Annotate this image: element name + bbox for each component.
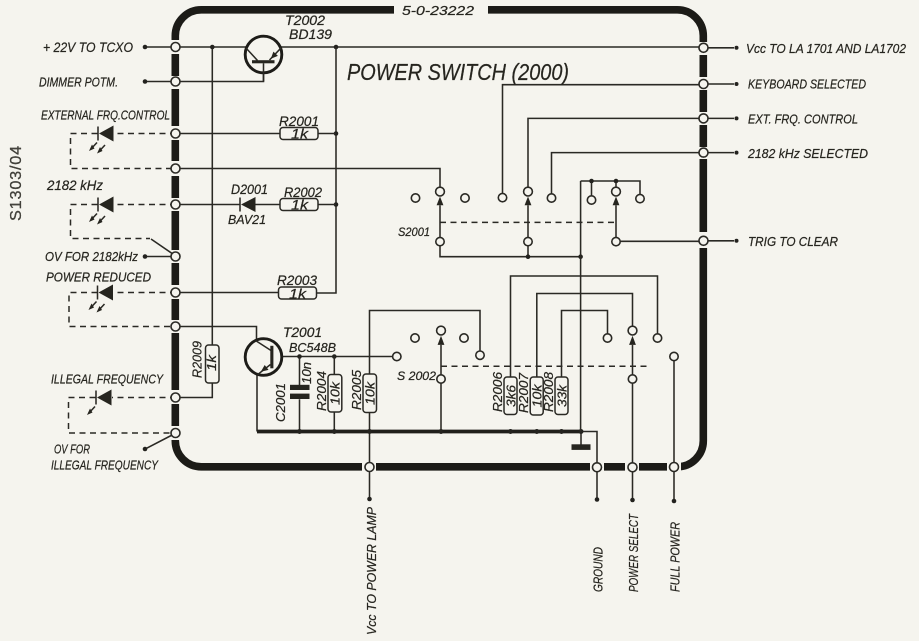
terminal left OV2182 — [171, 252, 180, 261]
switch S2002 contact from T2001 base — [393, 352, 401, 360]
wire R2007 elbow to S2002 wiper — [537, 294, 633, 378]
node junction rail-R2001 — [334, 131, 339, 136]
wire diagonal OV FOR ILLEGAL FREQUENCY — [146, 433, 176, 449]
wire C2001 leads — [299, 357, 301, 432]
svg-text:T2002: T2002 — [285, 13, 326, 28]
wire R2002 right lead — [318, 204, 336, 206]
svg-text:EXT. FRQ. CONTROL: EXT. FRQ. CONTROL — [748, 113, 858, 127]
switch S2002 contact R2008 — [603, 334, 611, 342]
resistor R2007 — [530, 377, 543, 415]
terminal left power-reduced — [171, 288, 180, 297]
terminal right trig — [699, 236, 708, 245]
wire S2002 mechanical dashed coupling — [441, 365, 651, 367]
wire Vcc line from T2002 emitter to right border — [282, 46, 704, 48]
node external dot OV 2182 — [143, 254, 148, 259]
switch S2002 left wiring — [441, 345, 633, 463]
switch S2001 wiper arrow C — [613, 197, 620, 206]
wire R2009 bottom lead to terminal — [176, 383, 212, 398]
wire DIMMER POTM to base of T2002 — [145, 73, 264, 82]
wire R2004 leads — [333, 357, 335, 432]
switch S2002 contact R2005 — [476, 351, 484, 359]
resistor R2009 — [206, 345, 220, 383]
svg-text:10n: 10n — [299, 362, 314, 384]
wire center vertical x=580.6 from y181 to bus — [580, 181, 582, 432]
terminal left +22V — [171, 43, 180, 52]
svg-text:D2001: D2001 — [231, 182, 268, 197]
wire long return line y=168.5 to S2001 wiper — [176, 169, 440, 188]
wire Vcc TO POWER LAMP external stub — [369, 471, 371, 497]
wire ground-symbol stub and step to GROUND terminal — [581, 432, 597, 464]
node right dot trig — [735, 239, 739, 243]
resistor R2003 — [279, 287, 317, 299]
wire right stub Vcc — [708, 47, 734, 49]
switch S2002 wiper contact L — [437, 326, 446, 335]
diode D2001 BAV21 — [240, 197, 256, 212]
svg-text:POWER SWITCH (2000): POWER SWITCH (2000) — [347, 59, 569, 85]
terminal right keyboard — [699, 80, 708, 89]
svg-text:10k: 10k — [328, 380, 343, 405]
svg-text:2182 kHz: 2182 kHz — [46, 178, 103, 193]
terminal left illegal — [171, 393, 180, 402]
node junction rail-R2002 — [334, 202, 339, 207]
switch S2001 wiper arrow A — [437, 197, 444, 206]
wire right stub 2182sel — [708, 152, 734, 154]
switch S2001 bottom contact A — [436, 237, 444, 245]
switch S2001 contact A1 — [411, 194, 419, 202]
transistor T2002 — [245, 36, 282, 81]
node external dot OV illegal — [143, 447, 148, 452]
switch S2001 contact keyboard — [498, 193, 506, 201]
svg-text:S2001: S2001 — [398, 225, 430, 239]
svg-text:1k: 1k — [204, 353, 219, 371]
wire diagonal from 2182 loop to OV terminal — [151, 239, 174, 255]
wire ground bus — [257, 430, 581, 434]
terminal bottom power-select — [628, 463, 637, 472]
node bus junction R2005-lamp — [367, 429, 372, 434]
node junction base-R2004 — [332, 354, 337, 359]
wire R2005 bottom lead through bus to lamp terminal — [369, 413, 371, 464]
switch S2001 wiper contact C — [612, 187, 621, 196]
svg-text:10k: 10k — [363, 380, 378, 405]
svg-text:POWER REDUCED: POWER REDUCED — [46, 270, 151, 285]
wire FULL POWER external stub — [673, 471, 675, 499]
terminal bottom ground — [593, 463, 602, 472]
svg-text:C2001: C2001 — [273, 383, 288, 422]
node junction +22V collector — [210, 45, 215, 50]
node junction base-C2001 — [297, 354, 302, 359]
wire S2001 right section top rail y=181 — [581, 181, 640, 196]
svg-text:POWER SELECT: POWER SELECT — [627, 513, 641, 592]
switch S2002 wiper arrow R — [629, 336, 636, 345]
node right dot keyboard — [735, 82, 739, 86]
svg-text:1k: 1k — [291, 198, 309, 213]
switch S2002 wiper arrow L — [438, 336, 445, 345]
node junction y181 x591.5 — [589, 179, 594, 184]
switch S2001 contact C1 — [587, 196, 595, 204]
switch S2001 wiper contact A2 — [436, 187, 445, 196]
switch S2001 left section wiring — [440, 205, 616, 256]
svg-text:R2009: R2009 — [190, 341, 205, 378]
node lamp end dot — [367, 497, 372, 502]
wire R2008 elbow to S2002 contact — [562, 311, 608, 378]
resistor R2002 — [280, 199, 318, 211]
wire R2006 elbow to S2002 contact — [511, 276, 658, 377]
node FULL POWER end dot — [672, 499, 677, 504]
switch S2002 contact R2006 — [653, 334, 661, 342]
wire from terminal to D2001 anode — [176, 204, 240, 206]
wire GROUND external stub — [596, 471, 598, 498]
node bus junction S2002 wiper — [439, 429, 444, 434]
node bus junction R2004 — [332, 429, 337, 434]
resistor R2008 — [555, 377, 568, 415]
terminal right Vcc — [699, 43, 708, 52]
wire right stub keyboard — [708, 83, 734, 85]
terminal left return — [171, 164, 180, 173]
switch S2001 bottom contact B — [524, 237, 532, 245]
svg-text:+ 22V TO TCXO: + 22V TO TCXO — [43, 39, 133, 55]
wire EXTERNAL FRQ CONTROL LED dashed loop — [71, 134, 177, 169]
switch S2002 contact L1 — [411, 334, 419, 342]
switch S2002 contact L2 — [460, 334, 468, 342]
resistor R2005 — [363, 374, 377, 413]
wire KEYBOARD SELECTED from S2001 contact — [503, 85, 704, 194]
wire 2182kHz LED dashed loop — [71, 205, 177, 239]
svg-text:GROUND: GROUND — [592, 547, 606, 592]
capacitor C2001 — [290, 385, 310, 399]
border frame dashed rounded rectangle — [168, 2, 711, 474]
switch S2001 contact 2182sel — [547, 194, 555, 202]
terminal left ext-frq — [171, 129, 180, 138]
svg-text:TRIG TO CLEAR: TRIG TO CLEAR — [748, 235, 838, 249]
switch S2001 contact A3 — [461, 194, 469, 202]
svg-text:T2001: T2001 — [283, 325, 322, 340]
switch S2002 contact full-power — [670, 352, 678, 360]
resistor R2004 — [328, 375, 342, 413]
node junction y181 x616 — [614, 179, 619, 184]
wire R2005 top elbow to S2002 contact — [370, 311, 481, 375]
svg-text:BAV21: BAV21 — [228, 212, 266, 227]
switch S2001 wiper arrow B — [525, 197, 532, 206]
terminal left OV-illegal — [171, 429, 180, 438]
node bus junction C2001 — [297, 429, 302, 434]
svg-text:S 2002: S 2002 — [397, 369, 436, 383]
node right dot Vcc — [735, 46, 739, 50]
wire R2001 left lead — [176, 133, 280, 135]
svg-text:ILLEGAL FREQUENCY: ILLEGAL FREQUENCY — [51, 373, 164, 387]
wire R2001 right lead — [318, 133, 336, 135]
svg-text:1k: 1k — [291, 127, 309, 142]
node bus junction R2006 — [508, 429, 513, 434]
resistor R2001 — [280, 128, 318, 140]
wire TRIG TO CLEAR from S2001 contact — [620, 240, 703, 242]
terminal right 2182sel — [699, 148, 708, 157]
wire FULL POWER from S2002 contact — [673, 361, 675, 463]
wire R2003 left lead — [176, 292, 279, 294]
node right dot ext-frq — [735, 116, 739, 120]
wire vertical rail x=336 from Vcc line down to R2003 — [317, 47, 337, 293]
wire POWER SELECT external stub — [632, 471, 634, 498]
node GROUND end dot — [595, 497, 600, 502]
wire T2001 base line to S2002 contact — [282, 356, 393, 358]
svg-text:DIMMER POTM.: DIMMER POTM. — [39, 75, 118, 90]
switch S2002 wiper contact R — [628, 326, 637, 335]
wire T2001 emitter down to bus — [256, 375, 258, 432]
svg-text:FULL POWER: FULL POWER — [669, 522, 683, 592]
switch S2001 wiper contact B — [524, 187, 533, 196]
svg-text:S1303/04: S1303/04 — [8, 145, 25, 221]
svg-text:1k: 1k — [289, 287, 307, 302]
node bus junction R2007 — [534, 429, 539, 434]
node POWER SELECT end dot — [630, 498, 635, 503]
svg-text:KEYBOARD SELECTED: KEYBOARD SELECTED — [748, 78, 866, 92]
svg-text:5-0-23222: 5-0-23222 — [402, 3, 475, 18]
wire vertical rail x=212 from +22V line down to R2009 — [211, 47, 213, 345]
node junction S2001 bottom rail x=528 — [526, 254, 531, 259]
svg-text:33k: 33k — [555, 383, 570, 407]
wire POWER REDUCED LED dashed loop — [69, 293, 176, 327]
wire D2001 to R2002 — [255, 204, 280, 206]
switch S2002 bottom contact L — [437, 375, 445, 383]
svg-text:OV FOR 2182kHz: OV FOR 2182kHz — [45, 249, 139, 264]
wire ILLEGAL FREQUENCY LED dashed loop — [69, 398, 177, 434]
svg-text:Vcc TO LA 1701 AND LA1702: Vcc TO LA 1701 AND LA1702 — [746, 42, 906, 56]
switch S2002 bottom contact R — [628, 375, 636, 383]
svg-text:OV FOR: OV FOR — [54, 443, 90, 457]
svg-text:2182 kHz SELECTED: 2182 kHz SELECTED — [747, 147, 868, 161]
terminal left 2182 — [171, 200, 180, 209]
terminal bottom full-power — [670, 463, 679, 472]
node bus junction R2008 — [559, 429, 564, 434]
node external dot dimmer — [143, 79, 148, 84]
node right dot 2182sel — [735, 151, 739, 155]
LED 2182 kHz — [89, 197, 114, 225]
LED power reduced — [89, 285, 114, 313]
switch S2001 bottom contact trig — [612, 237, 620, 245]
node junction bus end ground — [579, 429, 584, 434]
resistor R2006 — [504, 377, 517, 415]
terminal right ext-frq — [699, 114, 708, 123]
svg-text:Vcc TO POWER LAMP: Vcc TO POWER LAMP — [364, 507, 379, 635]
switch S2001 contact C2 — [636, 194, 644, 202]
ground symbol bar — [572, 444, 591, 450]
wire +22V TO TCXO into collector of T2002 — [145, 46, 246, 48]
terminal bottom lamp — [365, 463, 374, 472]
wire S2001 mechanical dashed coupling — [440, 221, 616, 223]
wire 2182kHz SELECTED from S2001 contact — [552, 153, 704, 194]
wire right stub trig — [708, 240, 734, 242]
svg-text:EXTERNAL FRQ.CONTROL: EXTERNAL FRQ.CONTROL — [41, 109, 170, 123]
svg-text:BC548B: BC548B — [289, 340, 336, 355]
terminal left dimmer — [171, 77, 180, 86]
terminal left collector — [171, 322, 180, 331]
wire EXT FRQ CONTROL from S2001 wiper — [528, 118, 703, 187]
transistor T2001 — [245, 339, 282, 376]
LED illegal frequency — [87, 390, 112, 416]
svg-text:ILLEGAL FREQUENCY: ILLEGAL FREQUENCY — [51, 459, 159, 473]
node junction S2001 bottom rail x=580.6 — [578, 254, 583, 259]
wire right stub ext-frq — [708, 117, 734, 119]
wire OV FOR 2182kHz stub — [145, 256, 176, 258]
LED external frq control — [89, 126, 114, 154]
svg-text:BD139: BD139 — [289, 27, 333, 42]
node junction Vcc emitter rail — [334, 45, 339, 50]
node external dot +22V — [143, 45, 148, 50]
wire T2001 collector from terminal y=326.5 — [176, 327, 257, 341]
